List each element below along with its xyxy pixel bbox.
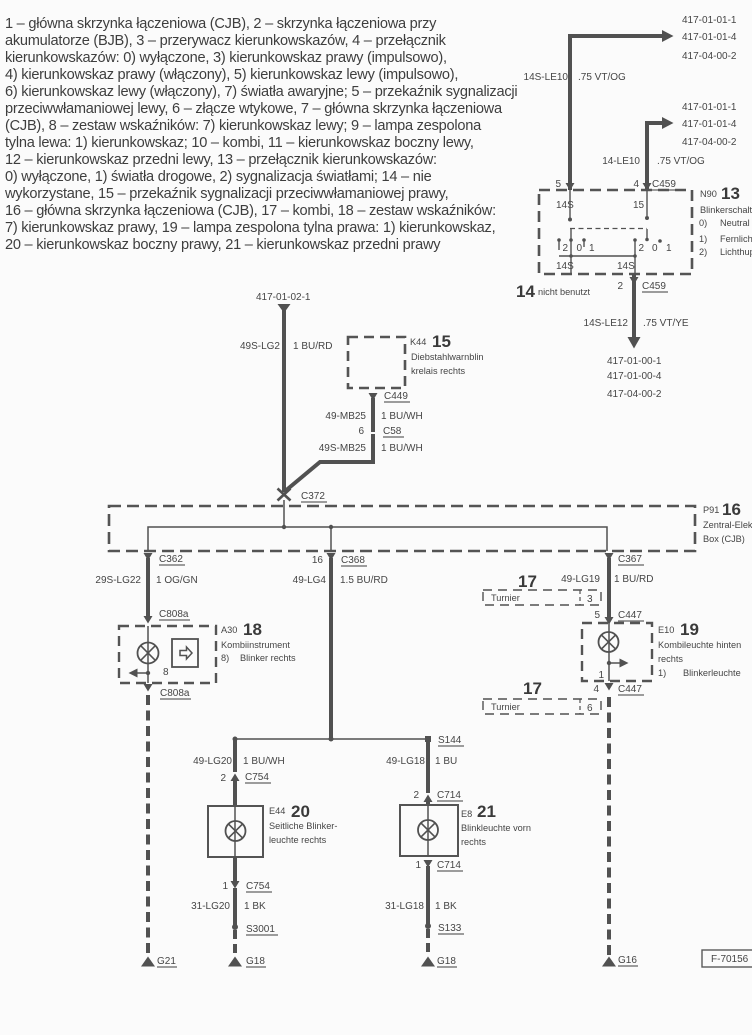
svg-text:Kombiinstrument: Kombiinstrument [221,640,290,650]
svg-text:2: 2 [220,773,226,784]
right switch contact 0 and 1 [652,239,672,254]
harness box Turnier (upper, dashed) [483,590,601,605]
svg-text:1: 1 [598,670,604,681]
svg-text:C362: C362 [159,554,183,565]
svg-text:C447: C447 [618,684,642,695]
svg-text:G16: G16 [618,955,637,966]
svg-text:31-LG20: 31-LG20 [191,901,230,912]
svg-text:2: 2 [639,243,645,254]
connector C714 (top) [437,790,463,801]
wire to G21 (dashed) [146,695,150,956]
svg-text:krelais rechts: krelais rechts [411,366,466,376]
svg-text:C754: C754 [245,772,269,783]
harness box Turnier (lower, dashed) [483,699,601,714]
svg-text:C459: C459 [652,179,676,190]
right switch pole line [645,229,649,241]
ground G16 symbol [602,957,616,967]
wire 29S-LG22 [146,558,150,617]
svg-text:2): 2) [699,247,707,257]
svg-text:C714: C714 [437,860,461,871]
splice C372 X marker [278,489,291,501]
wire C372 into CJB [283,500,285,527]
rear lamp E10 box 19 (dashed) [582,623,652,681]
svg-text:1 OG/GN: 1 OG/GN [156,575,198,586]
wire to G18 right (dashed) [426,929,430,956]
wire inside box 19 [608,623,610,681]
wire into box 21 [426,801,430,805]
connector C449 [384,391,410,402]
wire inside box 18 [147,626,149,683]
svg-text:1 BU/WH: 1 BU/WH [243,756,285,767]
connector C447 (bottom) [618,684,644,695]
lamp symbol in box 20 [226,821,246,841]
wire below box 20 [233,857,237,881]
svg-text:Neutral: Neutral [720,218,750,228]
svg-text:417-01-00-1: 417-01-00-1 [607,356,662,367]
svg-text:2: 2 [413,790,419,801]
connector C754 (top) [245,772,271,783]
svg-text:2: 2 [617,281,623,292]
svg-text:Blinkerleuchte: Blinkerleuchte [683,668,741,678]
svg-text:417-04-00-2: 417-04-00-2 [682,51,737,62]
left switch contact 2 [557,238,568,254]
svg-text:417-01-01-4: 417-01-01-4 [682,32,737,43]
svg-text:rechts: rechts [461,837,486,847]
svg-text:1 BU/WH: 1 BU/WH [381,411,423,422]
svg-text:S3001: S3001 [246,924,275,935]
svg-text:18: 18 [243,620,262,639]
svg-text:14S: 14S [556,200,574,211]
connector arrow C808a top [144,616,153,624]
wire 14S-LE10 to off-page [570,30,674,190]
splice S3001 label [246,924,278,935]
svg-text:1 BU/WH: 1 BU/WH [381,443,423,454]
connector C754 (bottom) [246,881,272,892]
svg-text:C808a: C808a [159,609,189,620]
ground G18 right label [437,956,457,967]
svg-text:C808a: C808a [160,688,190,699]
svg-text:rechts: rechts [658,654,683,664]
splice S144 square [425,736,431,742]
svg-text:.75 VT/OG: .75 VT/OG [578,72,626,83]
svg-text:8: 8 [163,667,169,678]
svg-text:Blinker rechts: Blinker rechts [240,653,296,663]
wire 49S-MB25 [284,434,373,492]
position label 1) Fernlicht [699,234,752,244]
svg-text:14: 14 [516,282,535,301]
ground G16 label [618,955,638,966]
svg-text:417-01-01-4: 417-01-01-4 [682,119,737,130]
splice S133 dot [425,923,431,929]
pin note 8) Blinker rechts [221,653,296,663]
svg-text:0: 0 [577,243,583,254]
svg-text:Kombileuchte hinten: Kombileuchte hinten [658,640,741,650]
lamp symbol in box 18 [138,643,159,664]
left switch pole line [569,229,573,256]
svg-text:Blinkleuchte vorn: Blinkleuchte vorn [461,823,531,833]
svg-text:G18: G18 [246,956,265,967]
svg-text:417-01-01-1: 417-01-01-1 [682,15,737,26]
svg-text:G21: G21 [157,956,176,967]
svg-text:49-LG4: 49-LG4 [293,575,327,586]
off-page arrow into wire 49S-LG2 [278,304,291,313]
connector arrow C362 [144,553,153,561]
svg-text:Seitliche Blinker-: Seitliche Blinker- [269,821,337,831]
wire 49-MB25 [371,398,375,432]
front lamp E8 box 21 [400,805,458,856]
svg-text:14S: 14S [556,261,574,272]
ground G18 right symbol [421,957,435,967]
switch N90 box 13 (dashed) [539,190,692,274]
svg-text:2: 2 [563,243,569,254]
svg-text:Box (CJB): Box (CJB) [703,534,745,544]
svg-text:E44: E44 [269,806,285,816]
wire into box 20 [233,781,237,806]
wire to G16 (dashed) [607,697,611,956]
svg-text:1 BU/RD: 1 BU/RD [293,341,332,352]
svg-text:14S-LE10: 14S-LE10 [524,72,569,83]
svg-text:13: 13 [721,184,740,203]
splice S3001 dot [232,924,238,930]
dashed coupling line between poles [570,228,647,230]
ground G18 left label [246,956,266,967]
lamp ground arrow in box 18 [129,669,151,678]
svg-text:1: 1 [589,243,595,254]
svg-text:4: 4 [593,684,599,695]
svg-text:14S: 14S [617,261,635,272]
svg-text:Lichthupe: Lichthupe [720,247,752,257]
legend text block [5,16,625,255]
svg-text:1: 1 [415,860,421,871]
svg-text:20: 20 [291,802,310,821]
svg-text:49-MB25: 49-MB25 [325,411,366,422]
turn indicator icon in box 18 [172,639,198,667]
svg-text:3: 3 [587,594,593,605]
connector C714 (bottom) [437,860,463,871]
connector arrow at pin 4 [643,183,652,191]
junction dot centre [329,737,334,742]
svg-text:16: 16 [722,500,741,519]
svg-text:8): 8) [221,653,229,663]
svg-text:Blinkerschalte: Blinkerschalte [700,205,752,215]
svg-text:6: 6 [358,426,364,437]
wire 31-LG20 [233,888,237,926]
wire 49-LG20 [233,739,237,772]
bus bar inside CJB [148,527,607,551]
position label 0) Neutral [699,218,750,228]
wire 49-LG18 [426,739,430,793]
splice S133 label [438,923,464,934]
lamp ground arrow in box 19 [607,659,629,668]
svg-text:14S-LE12: 14S-LE12 [584,318,629,329]
connector C459 (bottom) [642,281,668,292]
connector C58 [383,426,404,437]
wire 49S-LG2 [282,308,286,492]
svg-text:417-01-02-1: 417-01-02-1 [256,292,311,303]
svg-text:E10: E10 [658,625,674,635]
connector arrow C714 bottom [424,860,433,868]
svg-text:1): 1) [699,234,707,244]
connector arrow C447 top [605,617,614,625]
connector C447 (top) [618,610,644,621]
svg-text:49S-MB25: 49S-MB25 [319,443,367,454]
svg-text:C372: C372 [301,491,325,502]
lamp symbol in box 21 [418,820,438,840]
svg-text:0): 0) [699,218,707,228]
svg-text:1.5 BU/RD: 1.5 BU/RD [340,575,388,586]
svg-text:nicht benutzt: nicht benutzt [538,287,591,297]
svg-text:Turnier: Turnier [491,702,520,712]
connector C808a (top) [159,609,190,620]
svg-text:K44: K44 [410,337,426,347]
svg-text:C58: C58 [383,426,402,437]
svg-text:19: 19 [680,620,699,639]
wire 31-LG18 [426,866,430,925]
bus drop to C368 [330,527,332,551]
connector C459 (top) [652,179,678,190]
connector C362 [159,554,185,565]
svg-text:G18: G18 [437,956,456,967]
svg-text:17: 17 [518,572,537,591]
drawing number box F-70156 [702,950,752,967]
central junction box P91 box 16 (dashed) [109,506,695,551]
connector arrow C808a bottom [144,684,153,692]
connector arrow C754 top (up) [231,774,240,782]
svg-text:.75 VT/YE: .75 VT/YE [643,318,689,329]
svg-text:1 BU: 1 BU [435,756,457,767]
svg-text:Turnier: Turnier [491,593,520,603]
svg-text:15: 15 [633,200,645,211]
connector arrow C447 bottom [605,683,614,691]
svg-text:C754: C754 [246,881,270,892]
svg-text:S144: S144 [438,735,462,746]
svg-text:49S-LG2: 49S-LG2 [240,341,280,352]
wire 49-LG19 [607,558,611,618]
left switch contact 0 [577,238,596,254]
svg-text:C714: C714 [437,790,461,801]
connector C368 [341,555,367,566]
svg-text:417-04-00-2: 417-04-00-2 [607,389,662,400]
switch pole stub left [568,190,572,222]
wire 14S-LE12 to off-page [628,274,641,349]
svg-text:5: 5 [555,179,561,190]
svg-text:A30: A30 [221,625,237,635]
svg-text:49-LG19: 49-LG19 [561,574,600,585]
svg-text:29S-LG22: 29S-LG22 [95,575,141,586]
splice S144 label [438,735,464,746]
position label 2) Lichthupe [699,247,752,257]
wire inside box 21 [427,805,429,856]
pin note 1) Blinkerleuchte [658,668,741,678]
svg-text:leuchte rechts: leuchte rechts [269,835,327,845]
svg-text:1 BU/RD: 1 BU/RD [614,574,653,585]
connector arrow C714 top (up) [424,795,433,803]
svg-text:49-LG20: 49-LG20 [193,756,232,767]
svg-text:31-LG18: 31-LG18 [385,901,424,912]
side lamp E44 box 20 [208,806,263,857]
svg-text:417-01-01-1: 417-01-01-1 [682,102,737,113]
svg-text:1: 1 [222,881,228,892]
wire 49-LG4 [329,558,333,739]
svg-text:1 BK: 1 BK [244,901,266,912]
ground G18 left symbol [228,957,242,967]
svg-text:N90: N90 [700,189,717,199]
svg-text:417-04-00-2: 417-04-00-2 [682,137,737,148]
connector C372 label [301,491,327,502]
wire inside box 20 [234,806,236,857]
connector arrow at pin 5 [566,183,575,191]
relay K44 box 15 (dashed) [348,337,405,388]
svg-text:E8: E8 [461,809,472,819]
connector C808a (bottom) [160,688,191,699]
svg-text:4: 4 [633,179,639,190]
svg-text:F-70156: F-70156 [711,954,749,965]
wire 14S down left inside box [570,256,572,274]
svg-text:1): 1) [658,668,666,678]
svg-text:1: 1 [666,243,672,254]
wire to G18 left (dashed) [233,930,237,956]
svg-text:1 BK: 1 BK [435,901,457,912]
svg-text:417-01-00-4: 417-01-00-4 [607,371,662,382]
connector arrow C459 bottom [630,277,639,285]
svg-text:15: 15 [432,332,451,351]
switch common bar [559,254,637,258]
svg-text:17: 17 [523,679,542,698]
svg-text:21: 21 [477,802,496,821]
connector arrow C367 [605,553,614,561]
svg-text:S133: S133 [438,923,462,934]
connector C367 [618,554,644,565]
svg-text:Diebstahlwarnblin: Diebstahlwarnblin [411,352,484,362]
connector arrow C368 [327,553,336,561]
switch pole stub right [645,190,649,220]
svg-text:0: 0 [652,243,658,254]
svg-text:P91: P91 [703,505,719,515]
junction dot left [233,737,238,742]
svg-text:16: 16 [312,555,324,566]
connector arrow C449 [369,393,378,401]
svg-text:.75 VT/OG: .75 VT/OG [657,156,705,167]
ground G21 symbol [141,957,155,967]
svg-text:C447: C447 [618,610,642,621]
wire 14S down right inside box [634,256,636,274]
svg-text:C367: C367 [618,554,642,565]
svg-text:C368: C368 [341,555,365,566]
ground G21 label [157,956,177,967]
bus junction dot at C368 feed [329,525,333,529]
svg-text:C459: C459 [642,281,666,292]
instrument cluster A30 box 18 (dashed) [119,626,216,683]
wire 14-LE10 to off-page [647,117,674,190]
svg-text:5: 5 [594,610,600,621]
svg-text:C449: C449 [384,391,408,402]
svg-text:49-LG18: 49-LG18 [386,756,425,767]
junction bar under 49-LG4 [235,738,428,740]
right switch contact 2 [633,238,644,256]
lamp symbol in box 19 [599,632,619,652]
svg-text:Fernlicht: Fernlicht [720,234,752,244]
connector arrow C754 bottom [231,881,240,889]
svg-text:Zentral-Elektr: Zentral-Elektr [703,520,752,530]
svg-text:6: 6 [587,703,593,714]
bus junction dot at C372 feed [282,525,286,529]
svg-text:14-LE10: 14-LE10 [602,156,640,167]
